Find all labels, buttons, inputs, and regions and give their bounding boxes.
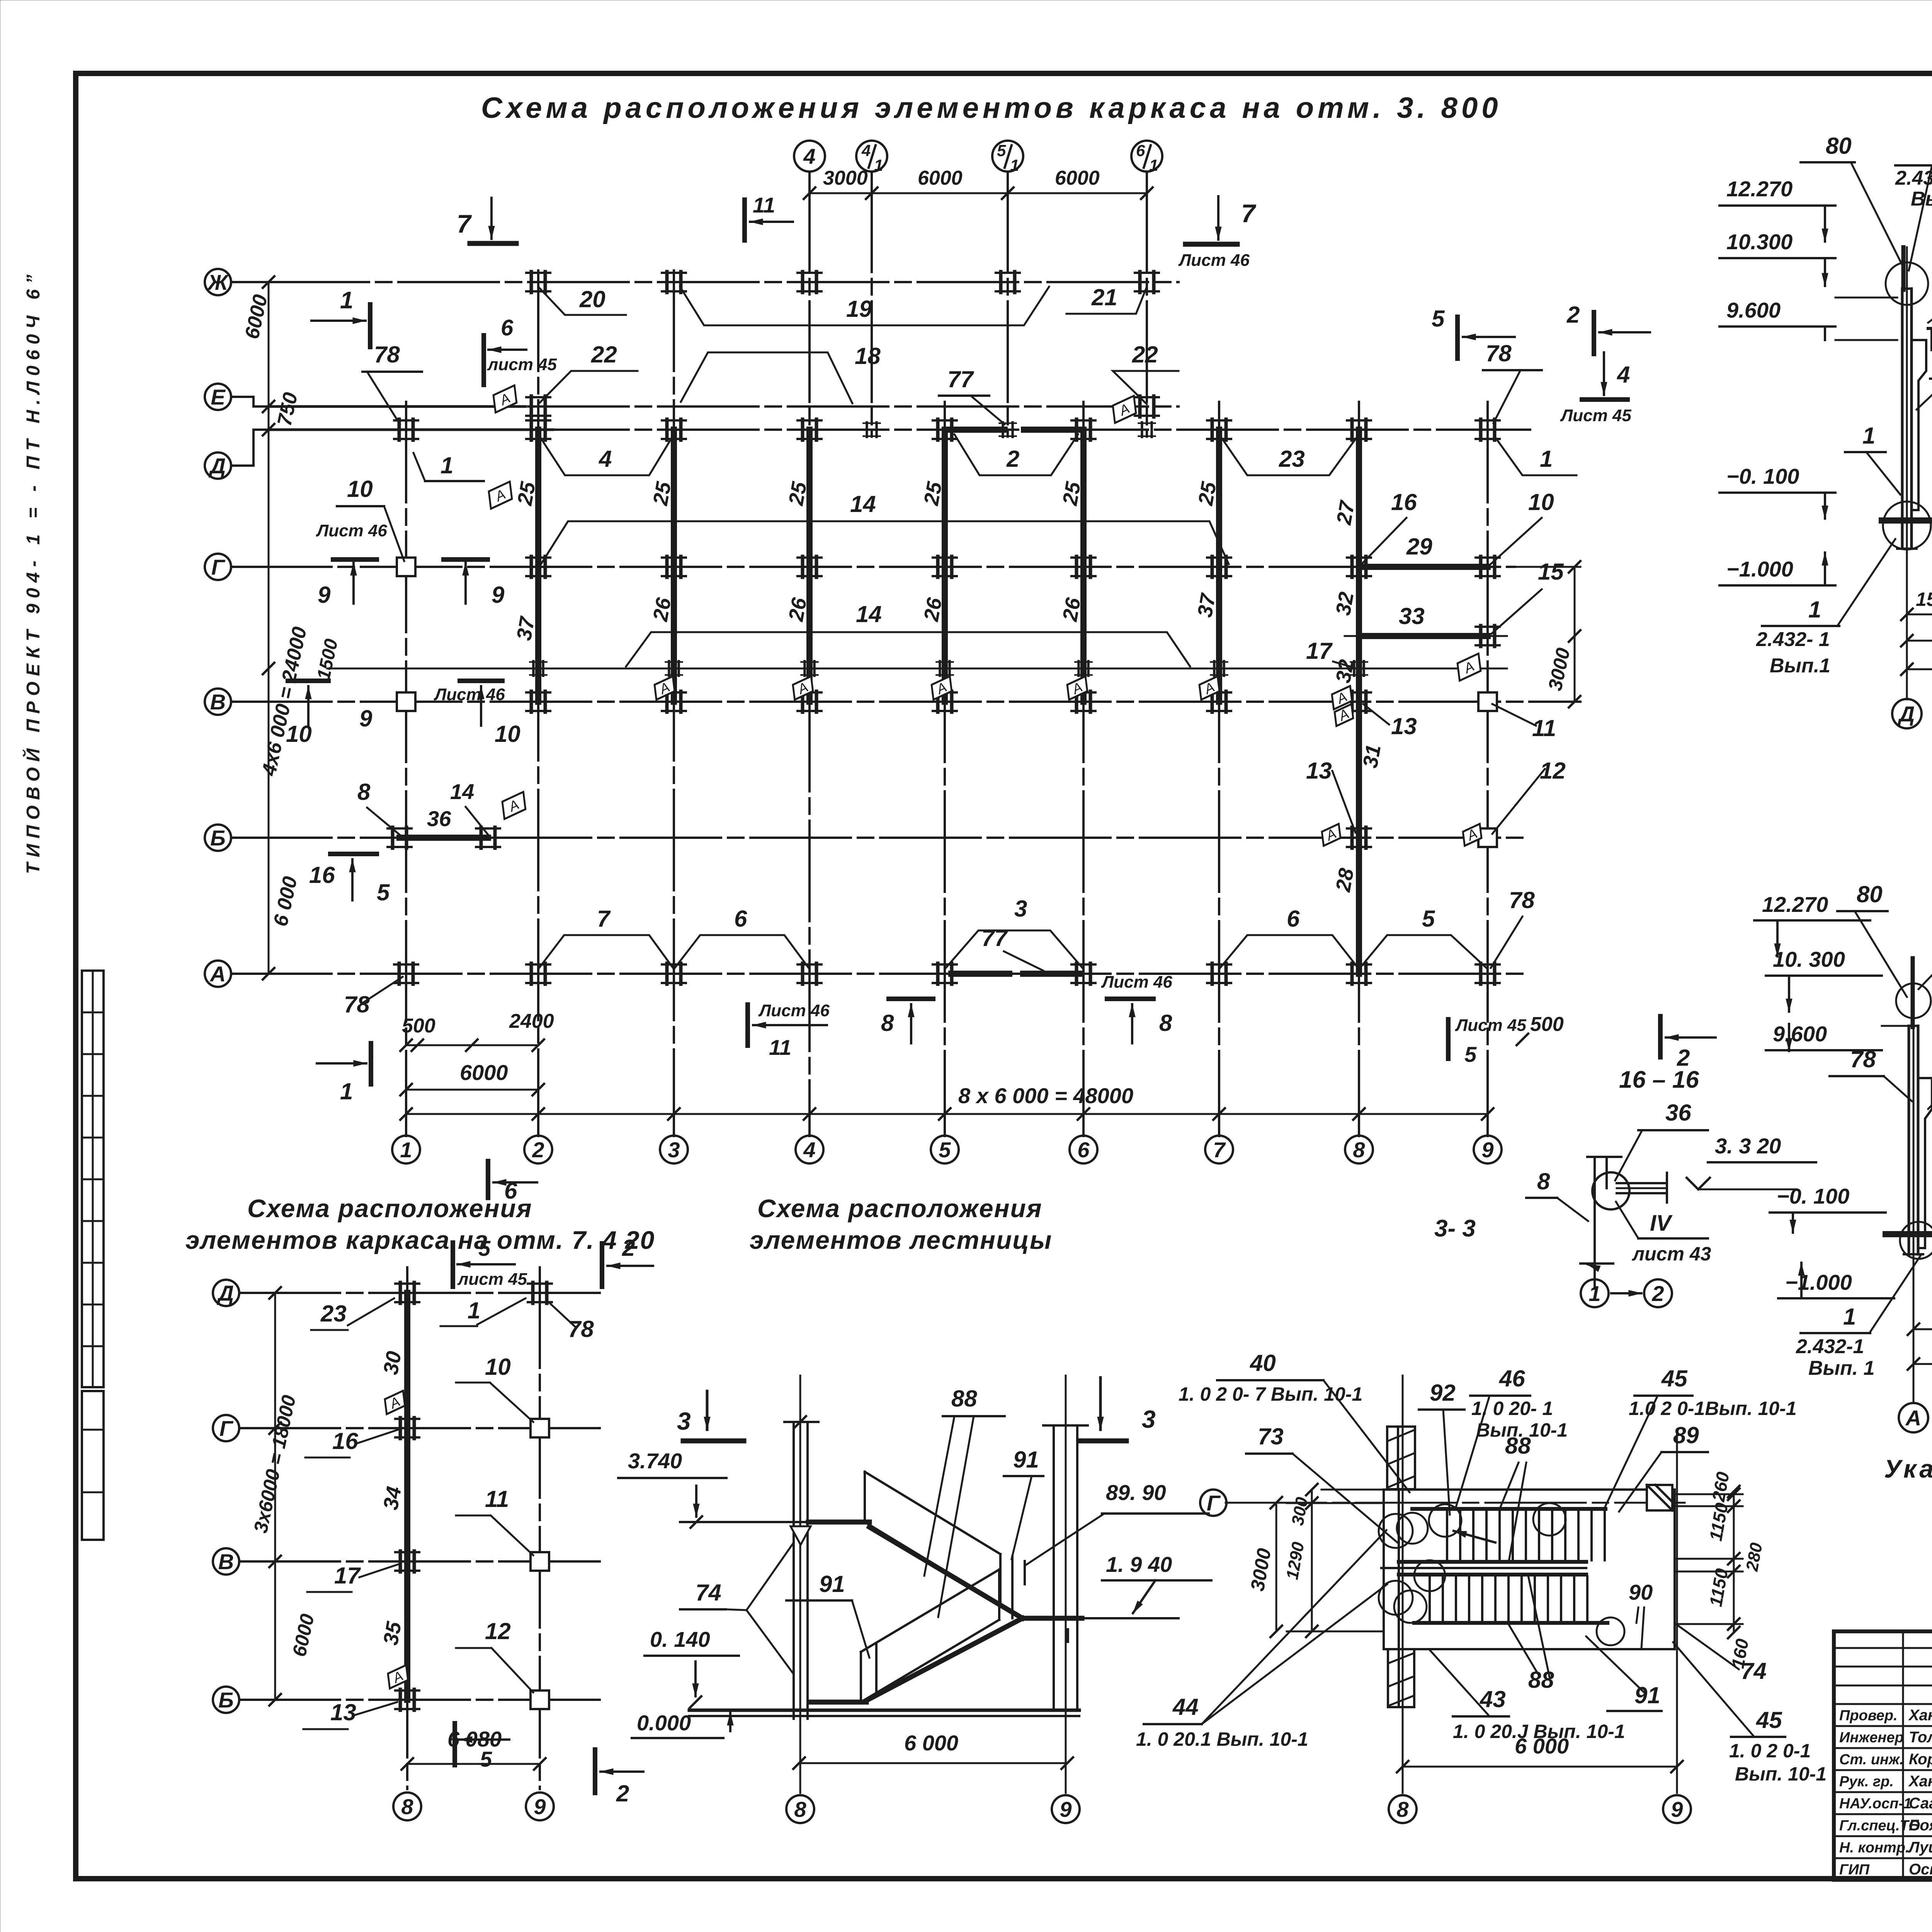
svg-text:Вып. 1: Вып. 1 bbox=[1808, 1357, 1875, 1379]
svg-text:25: 25 bbox=[649, 480, 676, 508]
lower plan thick column strip axis 8 bbox=[404, 1293, 410, 1700]
svg-text:3: 3 bbox=[1014, 896, 1027, 922]
callout 20 bbox=[538, 287, 626, 315]
row axis Б bbox=[231, 837, 1522, 839]
row A callout 6 right bbox=[1219, 935, 1359, 969]
svg-text:Вып. 10-1: Вып. 10-1 bbox=[1735, 1763, 1827, 1785]
svg-text:2400: 2400 bbox=[509, 1010, 554, 1032]
row axis В bbox=[231, 701, 1580, 703]
svg-text:6: 6 bbox=[1077, 1138, 1090, 1162]
svg-text:1: 1 bbox=[440, 452, 453, 478]
cut mark 6 below axis2 bbox=[486, 1161, 490, 1198]
stair column 9 double line bbox=[1053, 1425, 1055, 1710]
cut mark 2 top right bbox=[1592, 312, 1596, 354]
section 1-1 base line bbox=[1882, 517, 1932, 524]
svg-text:9: 9 bbox=[534, 1794, 546, 1819]
cut mark 2 bottom right bbox=[1658, 1016, 1663, 1057]
svg-text:Лист 46: Лист 46 bbox=[758, 1001, 830, 1020]
svg-text:91: 91 bbox=[819, 1571, 845, 1597]
svg-text:500: 500 bbox=[402, 1015, 435, 1037]
svg-text:1: 1 bbox=[1010, 156, 1019, 174]
svg-text:8 х 6 000 = 48000: 8 х 6 000 = 48000 bbox=[958, 1083, 1133, 1108]
mid landing 1.940 bbox=[1021, 1616, 1082, 1621]
junction symbols offset line bbox=[530, 661, 546, 676]
svg-text:Ханин: Ханин bbox=[1908, 1707, 1932, 1724]
right dimension 3000 bbox=[1574, 567, 1576, 702]
svg-text:5: 5 bbox=[1422, 906, 1435, 932]
lower plan top cut mark 5 лист45 bbox=[451, 1243, 455, 1287]
svg-text:500: 500 bbox=[1530, 1013, 1564, 1036]
svg-text:3.740: 3.740 bbox=[628, 1449, 682, 1473]
svg-text:лист 43: лист 43 bbox=[1632, 1243, 1711, 1265]
svg-text:9: 9 bbox=[1060, 1797, 1071, 1821]
svg-text:26: 26 bbox=[649, 596, 676, 624]
svg-text:77: 77 bbox=[981, 925, 1008, 951]
svg-text:Д: Д bbox=[217, 1281, 234, 1305]
svg-text:Б: Б bbox=[210, 826, 226, 850]
beam line 14 upper bbox=[541, 521, 1229, 564]
svg-text:10.300: 10.300 bbox=[1726, 230, 1793, 254]
svg-text:25: 25 bbox=[513, 480, 540, 508]
svg-text:78: 78 bbox=[374, 342, 400, 367]
diamond A near 36 bbox=[497, 792, 530, 819]
svg-text:9.600: 9.600 bbox=[1726, 298, 1781, 322]
svg-text:Толмачева: Толмачева bbox=[1909, 1729, 1932, 1746]
callout 1 row Д left bbox=[425, 480, 484, 482]
svg-text:20: 20 bbox=[579, 286, 605, 312]
callout 22 right bbox=[1113, 371, 1179, 404]
lower plan left dimension bbox=[274, 1293, 276, 1700]
cut mark 5 top right bbox=[1455, 317, 1460, 359]
svg-text:10: 10 bbox=[347, 476, 373, 502]
svg-text:25: 25 bbox=[1194, 480, 1221, 508]
svg-text:Вып. 1: Вып. 1 bbox=[1911, 188, 1932, 210]
diamonds A mid plan bbox=[488, 385, 521, 412]
svg-text:12.270: 12.270 bbox=[1762, 892, 1828, 917]
cut mark 1 bottom left bbox=[317, 1062, 366, 1065]
svg-text:9: 9 bbox=[1671, 1797, 1683, 1821]
stair plan detail circles bbox=[1429, 1504, 1461, 1537]
section 1-1 antennas bbox=[1901, 247, 1906, 290]
lower plan row axis Г bbox=[240, 1427, 603, 1429]
svg-text:элементов лестницы: элементов лестницы bbox=[750, 1226, 1052, 1254]
svg-text:Лист 46: Лист 46 bbox=[1178, 251, 1250, 270]
svg-text:1. 0 20.1 Вып. 10-1: 1. 0 20.1 Вып. 10-1 bbox=[1136, 1728, 1308, 1750]
stair axis circle 9 bbox=[1052, 1795, 1080, 1823]
svg-text:10: 10 bbox=[485, 1354, 511, 1380]
svg-text:1: 1 bbox=[1588, 1281, 1600, 1306]
junction symbols row Б bbox=[388, 827, 412, 848]
svg-text:1: 1 bbox=[1149, 156, 1158, 174]
svg-text:19: 19 bbox=[846, 296, 872, 322]
svg-text:I: I bbox=[1065, 1623, 1071, 1648]
top axis circle 6/1 bbox=[1131, 141, 1162, 172]
svg-text:А: А bbox=[1905, 1406, 1921, 1430]
column axis 4 bbox=[808, 172, 811, 1136]
title block outer bbox=[1834, 1631, 1932, 1880]
column axis 5 bbox=[944, 402, 946, 1136]
svg-text:6: 6 bbox=[734, 906, 747, 932]
svg-text:14: 14 bbox=[856, 601, 882, 627]
axis circle Г bbox=[205, 554, 231, 580]
svg-text:16 – 16: 16 – 16 bbox=[1619, 1066, 1699, 1093]
svg-text:45: 45 bbox=[1756, 1707, 1782, 1733]
svg-text:36: 36 bbox=[427, 806, 451, 831]
thick column strip axis 3 bbox=[671, 430, 677, 702]
junction symbols row В bbox=[397, 692, 415, 711]
callout 19 bbox=[680, 287, 1049, 325]
axis circle В bbox=[205, 689, 231, 715]
svg-text:78: 78 bbox=[1509, 887, 1535, 913]
stair cut mark 3 left bbox=[706, 1391, 709, 1430]
section 2-2 antennas bbox=[1911, 958, 1915, 1027]
svg-text:3: 3 bbox=[668, 1138, 680, 1162]
column axis 9 bbox=[1486, 402, 1489, 1136]
svg-text:150: 150 bbox=[1916, 588, 1932, 610]
svg-text:22: 22 bbox=[1132, 342, 1158, 367]
svg-text:8: 8 bbox=[357, 779, 371, 805]
stair column 8 double line bbox=[793, 1422, 795, 1719]
svg-text:3: 3 bbox=[1142, 1405, 1156, 1433]
svg-text:1: 1 bbox=[1540, 446, 1553, 472]
svg-text:11: 11 bbox=[485, 1486, 509, 1512]
column axis 5/1 bbox=[1007, 172, 1009, 437]
stair column axis 9 bbox=[1065, 1376, 1067, 1793]
section 1-1 column Д corbel bbox=[1912, 340, 1926, 510]
left vertical dimension line bbox=[268, 282, 270, 974]
stair plan mid thick line bbox=[1381, 1567, 1586, 1569]
svg-text:35: 35 bbox=[379, 1620, 406, 1647]
row axis Е bbox=[269, 405, 1179, 408]
section 1-1 detail circles bbox=[1886, 262, 1928, 305]
svg-text:1: 1 bbox=[1843, 1304, 1856, 1330]
svg-text:В: В bbox=[210, 690, 226, 714]
svg-text:1: 1 bbox=[340, 287, 353, 314]
svg-text:Схема расположения: Схема расположения bbox=[247, 1194, 532, 1223]
svg-text:10. 300: 10. 300 bbox=[1773, 947, 1845, 971]
bottom dimension 500 2400 bbox=[406, 1044, 538, 1046]
svg-text:34: 34 bbox=[379, 1485, 406, 1512]
svg-text:Лист 46: Лист 46 bbox=[316, 521, 387, 540]
detail 16-16 beam bbox=[1617, 1182, 1667, 1184]
svg-text:1.0 2 0-1Вып. 10-1: 1.0 2 0-1Вып. 10-1 bbox=[1629, 1398, 1797, 1419]
svg-text:Е: Е bbox=[211, 385, 226, 409]
junction symbols row Д bbox=[394, 419, 418, 440]
svg-text:0.000: 0.000 bbox=[637, 1711, 691, 1735]
svg-text:89: 89 bbox=[1673, 1422, 1699, 1448]
top axis circle 4/1 bbox=[856, 141, 887, 172]
svg-text:Лист 46: Лист 46 bbox=[434, 685, 505, 704]
svg-text:17: 17 bbox=[334, 1563, 361, 1588]
svg-text:3. 3 20: 3. 3 20 bbox=[1715, 1134, 1781, 1158]
лист 45 500 bottom right bbox=[1446, 1019, 1451, 1059]
svg-text:Лист 46: Лист 46 bbox=[1101, 973, 1172, 992]
svg-text:Саакьянц: Саакьянц bbox=[1909, 1795, 1932, 1812]
svg-text:элементов каркаса на отм.: элементов каркаса на отм. 7. 4 20 bbox=[185, 1226, 655, 1254]
svg-text:2: 2 bbox=[1651, 1281, 1664, 1306]
svg-text:78: 78 bbox=[344, 992, 370, 1017]
left margin stamp table upper bbox=[82, 971, 104, 1387]
svg-text:IV: IV bbox=[1650, 1211, 1673, 1236]
column axis 6 bbox=[1082, 402, 1085, 1136]
top axis circle 5/1 bbox=[992, 141, 1023, 172]
bottom dimension line 6000 bbox=[406, 1089, 538, 1091]
lower plan row axis Б bbox=[240, 1699, 603, 1701]
svg-text:21: 21 bbox=[1091, 284, 1117, 310]
svg-text:Осташевский: Осташевский bbox=[1909, 1861, 1932, 1878]
svg-text:3000: 3000 bbox=[823, 167, 868, 189]
svg-text:33: 33 bbox=[1399, 603, 1425, 629]
thick column strip axis 4 bbox=[806, 430, 813, 702]
svg-text:Рук. гр.: Рук. гр. bbox=[1839, 1774, 1894, 1790]
svg-text:2: 2 bbox=[616, 1781, 629, 1806]
stair plan column axis 8 bbox=[1402, 1376, 1404, 1793]
upper stringer end verticals bbox=[1011, 1556, 1014, 1618]
thick column strip axis 6 bbox=[1080, 430, 1087, 702]
section 1-1 dim 6000 bbox=[1907, 640, 1932, 642]
svg-text:2: 2 bbox=[1566, 302, 1580, 328]
bottom axis circles 1-9 bbox=[392, 1136, 420, 1163]
lower plan diamonds bbox=[380, 1390, 409, 1415]
svg-text:1. 0 2 0-1: 1. 0 2 0-1 bbox=[1729, 1740, 1811, 1762]
svg-text:0. 140: 0. 140 bbox=[650, 1627, 710, 1651]
svg-text:16: 16 bbox=[332, 1428, 358, 1454]
svg-text:Д: Д bbox=[209, 454, 226, 478]
svg-text:Боярченко: Боярченко bbox=[1909, 1817, 1932, 1834]
lower plan junction symbols bbox=[395, 1282, 419, 1303]
svg-text:8: 8 bbox=[1396, 1797, 1409, 1821]
lower plan column axis 8 bbox=[406, 1267, 408, 1789]
svg-text:Г: Г bbox=[211, 555, 226, 579]
svg-text:2.432-1: 2.432-1 bbox=[1796, 1335, 1864, 1358]
svg-text:13: 13 bbox=[330, 1699, 356, 1725]
lower stringer end verticals bbox=[875, 1643, 878, 1693]
cut marks 10 9 10 row В bbox=[288, 679, 328, 683]
svg-text:8: 8 bbox=[401, 1794, 413, 1819]
lower plan top cut mark 2 bbox=[600, 1243, 604, 1287]
section 2-2 axis circles bbox=[1899, 1403, 1928, 1432]
svg-text:1: 1 bbox=[400, 1138, 412, 1162]
svg-text:8: 8 bbox=[1353, 1138, 1365, 1162]
column axis 3 bbox=[673, 270, 675, 1136]
cut mark 8 up left bbox=[889, 997, 933, 1001]
svg-text:92: 92 bbox=[1430, 1380, 1456, 1406]
svg-text:1: 1 bbox=[468, 1298, 480, 1323]
svg-text:9: 9 bbox=[318, 582, 331, 608]
stair plan left column top hatched bbox=[1387, 1427, 1415, 1489]
svg-text:Схема расположения: Схема расположения bbox=[757, 1194, 1043, 1223]
row A callout 5 bbox=[1359, 935, 1488, 969]
svg-text:40: 40 bbox=[1250, 1350, 1276, 1376]
svg-text:Провер.: Провер. bbox=[1839, 1708, 1898, 1724]
svg-text:Ж: Ж bbox=[207, 270, 229, 294]
junction symbols row Е bbox=[526, 396, 550, 417]
svg-text:6: 6 bbox=[501, 315, 514, 340]
column axis 6/1 bbox=[1146, 172, 1148, 437]
svg-text:13: 13 bbox=[1306, 758, 1332, 784]
svg-text:9: 9 bbox=[359, 706, 372, 731]
junction symbols row Г bbox=[397, 558, 415, 576]
svg-text:12: 12 bbox=[485, 1618, 511, 1644]
stair plan top-right hatched block bbox=[1647, 1485, 1672, 1510]
thick column strip axis 8 bbox=[1356, 430, 1362, 974]
svg-text:14: 14 bbox=[850, 491, 876, 517]
svg-text:Луценко: Луценко bbox=[1908, 1839, 1932, 1856]
svg-text:Н. контр.: Н. контр. bbox=[1839, 1840, 1910, 1856]
svg-text:НАУ.осп-1: НАУ.осп-1 bbox=[1839, 1796, 1912, 1812]
svg-text:88: 88 bbox=[1505, 1433, 1531, 1459]
svg-text:2.432- 1: 2.432- 1 bbox=[1756, 628, 1830, 651]
svg-text:3: 3 bbox=[677, 1407, 691, 1435]
svg-text:1: 1 bbox=[340, 1078, 353, 1104]
section 2-2 dim 6000 bbox=[1913, 1328, 1932, 1330]
callout 23 bracket bbox=[1219, 434, 1359, 475]
svg-text:32: 32 bbox=[1332, 590, 1359, 617]
left margin stamp table lower bbox=[82, 1391, 104, 1540]
upper landing 3.740 bbox=[808, 1520, 869, 1525]
svg-text:Гл.спец.ТО: Гл.спец.ТО bbox=[1839, 1818, 1920, 1834]
svg-text:74: 74 bbox=[1741, 1658, 1767, 1684]
svg-text:13: 13 bbox=[1391, 713, 1417, 739]
detail 16-16 circle bbox=[1592, 1172, 1629, 1209]
svg-text:лист 45: лист 45 bbox=[487, 355, 557, 374]
svg-text:23: 23 bbox=[1279, 446, 1305, 472]
svg-text:Ст. инж.: Ст. инж. bbox=[1839, 1752, 1904, 1768]
lower plan bottom cut mark 5 bbox=[452, 1723, 457, 1765]
row A callout 7 bbox=[538, 935, 674, 969]
svg-text:6: 6 bbox=[1136, 141, 1145, 160]
svg-text:14: 14 bbox=[450, 779, 474, 804]
stair plan right dimension chain bbox=[1733, 1492, 1735, 1633]
svg-text:лист 45: лист 45 bbox=[457, 1270, 527, 1289]
svg-text:Лист 45: Лист 45 bbox=[1455, 1016, 1526, 1035]
beam 2 on axis Д bbox=[949, 427, 1005, 433]
lower plan row axis Д bbox=[240, 1292, 603, 1294]
svg-text:−0. 100: −0. 100 bbox=[1726, 464, 1799, 488]
svg-text:А: А bbox=[209, 962, 226, 986]
svg-text:6000: 6000 bbox=[1055, 167, 1100, 189]
svg-text:80: 80 bbox=[1857, 881, 1883, 907]
cut mark 1 top left bbox=[311, 320, 366, 322]
svg-text:Схема расположения элемент: Схема расположения элементов каркаса на … bbox=[481, 92, 1502, 124]
svg-text:74: 74 bbox=[696, 1580, 721, 1605]
svg-text:17: 17 bbox=[1306, 638, 1333, 664]
lower flight stringer thick bbox=[866, 1618, 1022, 1701]
offset axis В+1500 bbox=[327, 668, 1507, 670]
svg-text:4: 4 bbox=[803, 144, 815, 168]
svg-text:Д: Д bbox=[1898, 702, 1915, 726]
section 2-2 base line bbox=[1886, 1231, 1932, 1237]
detail 16-16 vertical member bbox=[1594, 1157, 1596, 1289]
upper railing parallelogram bbox=[865, 1472, 1000, 1554]
svg-text:7: 7 bbox=[1213, 1138, 1226, 1162]
cut marks 16 5 below Б bbox=[330, 852, 377, 856]
svg-text:10: 10 bbox=[1528, 489, 1554, 515]
svg-text:6000: 6000 bbox=[918, 167, 963, 189]
svg-text:10: 10 bbox=[495, 721, 520, 747]
svg-text:31: 31 bbox=[1359, 743, 1386, 770]
svg-text:5: 5 bbox=[1464, 1042, 1477, 1066]
svg-text:16: 16 bbox=[309, 862, 335, 888]
stair plan outer rectangle bbox=[1384, 1490, 1675, 1649]
svg-text:6000: 6000 bbox=[460, 1060, 508, 1085]
row axis Ж bbox=[269, 281, 1179, 283]
beam line 14 lower bbox=[626, 632, 1190, 667]
stair plan axis Г bbox=[1226, 1502, 1685, 1504]
junction symbols row А bbox=[394, 963, 418, 984]
top axis circle 4 bbox=[794, 141, 825, 172]
section 1-1 column axes bbox=[1906, 247, 1908, 699]
row axis А bbox=[231, 973, 1522, 975]
beam 77 on axis А bbox=[951, 971, 1009, 977]
thick column strip axis 5 bbox=[942, 430, 948, 702]
beam 33 bbox=[1359, 633, 1488, 639]
row axis Г bbox=[231, 566, 1515, 568]
beam 36 on axis Б bbox=[400, 835, 488, 841]
svg-text:26: 26 bbox=[1058, 596, 1085, 624]
svg-text:Б: Б bbox=[218, 1688, 234, 1712]
lower flight band bbox=[1399, 1573, 1586, 1577]
svg-text:80: 80 bbox=[1826, 133, 1852, 159]
svg-text:−0. 100: −0. 100 bbox=[1777, 1184, 1849, 1208]
stair plan left dimension chain bbox=[1311, 1490, 1313, 1631]
svg-text:12.270: 12.270 bbox=[1726, 177, 1793, 201]
svg-text:9.600: 9.600 bbox=[1773, 1022, 1827, 1046]
section 2-2 column А bbox=[1908, 1026, 1910, 1254]
svg-text:9: 9 bbox=[492, 582, 505, 608]
beam 29 on axis Г bbox=[1359, 564, 1488, 570]
axis circle Е with elbow bbox=[205, 384, 231, 410]
svg-text:5: 5 bbox=[1432, 306, 1445, 332]
column axis 8 bbox=[1358, 402, 1360, 1136]
lower plan axis circles bbox=[213, 1280, 239, 1306]
svg-text:26: 26 bbox=[920, 596, 947, 624]
thick column strip axis 7 bbox=[1216, 430, 1222, 702]
svg-text:ГИП: ГИП bbox=[1839, 1862, 1870, 1878]
svg-text:8: 8 bbox=[1159, 1010, 1172, 1036]
svg-text:7: 7 bbox=[597, 906, 611, 932]
svg-text:Ханин: Ханин bbox=[1908, 1773, 1932, 1790]
stair column axis 8 bbox=[799, 1376, 801, 1793]
upper flight arrow bbox=[1454, 1531, 1495, 1543]
svg-text:23: 23 bbox=[320, 1301, 347, 1327]
column axis 4/1 bbox=[871, 172, 873, 437]
svg-text:78: 78 bbox=[568, 1316, 594, 1342]
callout 4 bracket bbox=[538, 434, 674, 475]
svg-text:45: 45 bbox=[1661, 1366, 1688, 1391]
svg-text:2: 2 bbox=[1006, 446, 1019, 472]
cut mark 4 with лист 45 bbox=[1603, 352, 1605, 395]
cut mark 7 top left bbox=[490, 198, 493, 239]
axis circle Ж bbox=[205, 269, 231, 295]
svg-text:77: 77 bbox=[947, 366, 974, 392]
svg-text:73: 73 bbox=[1258, 1423, 1284, 1449]
svg-text:7: 7 bbox=[1241, 199, 1257, 228]
row A callout 3 bbox=[945, 930, 1083, 969]
svg-text:22: 22 bbox=[591, 342, 617, 367]
svg-text:1. 9 40: 1. 9 40 bbox=[1106, 1552, 1172, 1577]
svg-text:Г: Г bbox=[1207, 1491, 1221, 1515]
svg-text:1. 0 2 0- 7 Вып. 10-1: 1. 0 2 0- 7 Вып. 10-1 bbox=[1179, 1383, 1362, 1405]
svg-text:4: 4 bbox=[861, 141, 871, 160]
svg-text:7: 7 bbox=[457, 209, 472, 238]
axis circle Б bbox=[205, 825, 231, 851]
svg-text:88: 88 bbox=[951, 1386, 977, 1412]
svg-text:4: 4 bbox=[599, 446, 612, 472]
section 1-1 dim 4x6000 bbox=[1907, 668, 1932, 670]
lower plan bottom dimension 6000 bbox=[407, 1763, 540, 1765]
stair plan column axis 9 bbox=[1676, 1430, 1678, 1793]
